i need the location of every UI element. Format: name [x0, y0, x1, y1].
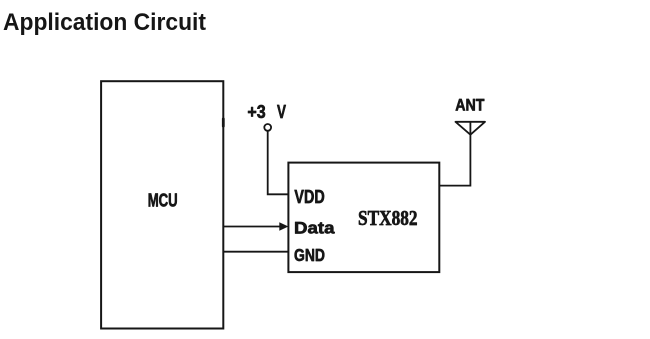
svg-text:STX882: STX882 [358, 206, 418, 230]
wire: +3V supply to VDD pin [268, 131, 289, 194]
svg-text:MCU: MCU [148, 191, 178, 211]
svg-text:GND: GND [294, 245, 325, 265]
svg-text:V: V [277, 102, 286, 122]
supply terminal circle [264, 124, 271, 131]
STX882 box [288, 163, 439, 273]
antenna symbol (triangle) [456, 122, 486, 135]
wire: MCU to Data pin with arrowhead [223, 222, 288, 230]
wire: STX882 RF output to antenna [439, 122, 470, 186]
pin stub on MCU right edge [222, 118, 225, 128]
svg-text:Data: Data [294, 218, 335, 237]
+3 V supply label [247, 102, 286, 122]
MCU box [101, 81, 223, 328]
svg-text:Application Circuit: Application Circuit [3, 9, 206, 36]
svg-text:ANT: ANT [455, 95, 485, 114]
svg-text:+3: +3 [247, 102, 265, 122]
svg-text:VDD: VDD [294, 187, 324, 207]
wire: MCU to GND pin [223, 251, 288, 253]
